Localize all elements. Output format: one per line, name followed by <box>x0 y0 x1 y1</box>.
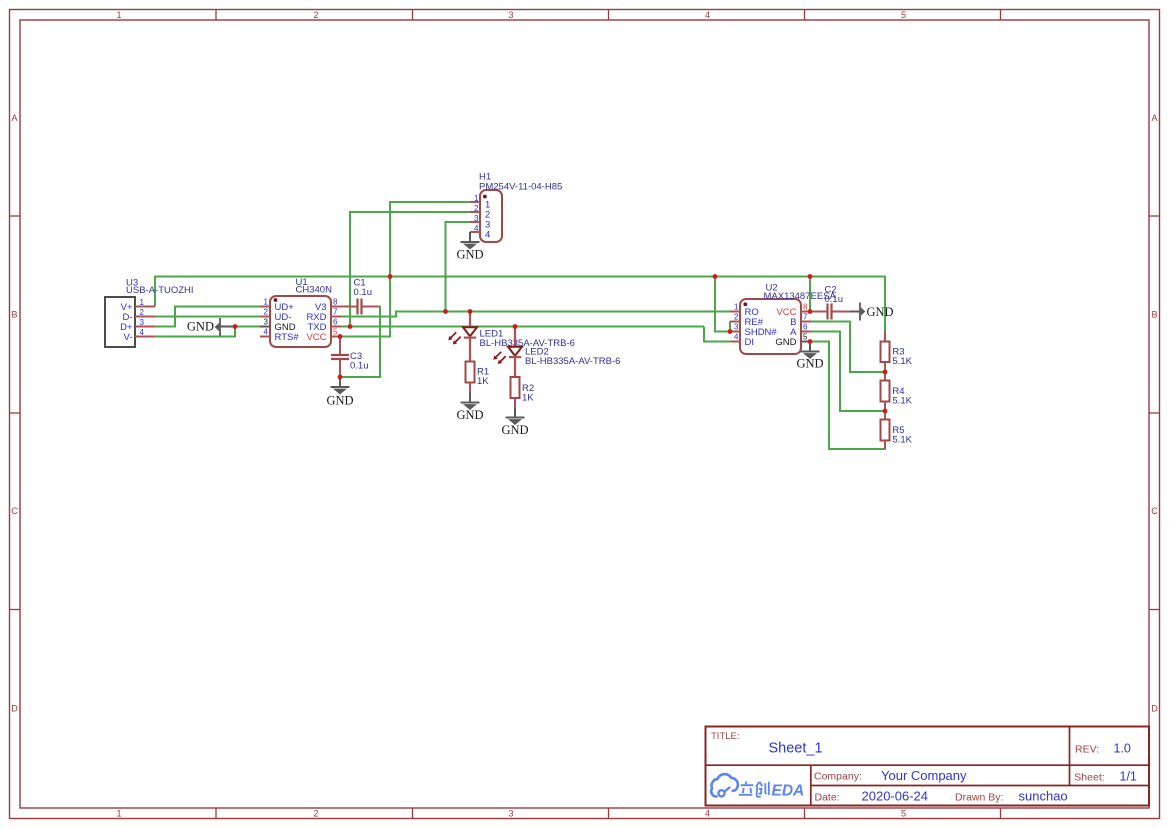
svg-text:A: A <box>1151 113 1157 123</box>
svg-text:4: 4 <box>474 224 479 233</box>
junction U2 pin5 GND <box>808 339 813 344</box>
svg-text:6: 6 <box>803 323 808 332</box>
junction VCC rail / H1 riser <box>388 274 393 279</box>
svg-text:CH340N: CH340N <box>296 285 333 296</box>
svg-text:REV:: REV: <box>1075 744 1099 756</box>
svg-text:0.1u: 0.1u <box>350 360 369 371</box>
LED2 light emission arrows <box>493 352 505 364</box>
junction R3/R4 node B <box>883 370 888 375</box>
ground symbol GND below H1 pin4 <box>456 232 483 262</box>
R5 top lead <box>884 411 886 420</box>
wire GND net R5 bottom return to U2 pin5 <box>811 342 885 450</box>
ground symbol GND right of C2 <box>850 303 894 321</box>
junction GND near USB <box>233 324 238 329</box>
svg-text:5.1K: 5.1K <box>892 434 912 445</box>
wire B net U2 pin7 to R3/R4 junction <box>811 322 885 373</box>
svg-text:1: 1 <box>264 298 269 307</box>
svg-text:3: 3 <box>508 10 513 20</box>
svg-text:0.1u: 0.1u <box>354 287 373 298</box>
wire UD- net USB D- to U1 pin2 <box>155 316 260 318</box>
svg-text:B: B <box>11 310 17 320</box>
svg-text:1: 1 <box>734 303 739 312</box>
wire VCC net rail to U2 pin8 <box>809 277 811 312</box>
svg-text:4: 4 <box>485 230 490 241</box>
svg-text:3: 3 <box>264 318 269 327</box>
svg-text:6: 6 <box>333 318 338 327</box>
svg-text:GND: GND <box>867 305 894 319</box>
svg-text:1: 1 <box>116 10 121 20</box>
wire RXD net branch to H1 pin3 <box>446 222 471 312</box>
svg-text:2: 2 <box>140 308 145 317</box>
svg-text:GND: GND <box>456 248 483 262</box>
wire A net U2 pin6 to R4/R5 junction <box>811 332 885 412</box>
svg-text:1: 1 <box>474 194 479 203</box>
logo text 立创EDA <box>739 782 804 800</box>
svg-text:Sheet_1: Sheet_1 <box>769 741 823 757</box>
svg-text:1.0: 1.0 <box>1114 742 1131 756</box>
capacitor C3 <box>331 337 349 378</box>
wire TXD net jog down to U2 DI <box>704 327 730 342</box>
junction TXD / LED2 <box>513 324 518 329</box>
U1 pin-1 marker dot <box>274 298 278 302</box>
svg-text:3: 3 <box>474 214 479 223</box>
svg-text:C: C <box>1151 506 1158 516</box>
svg-text:BL-HB335A-AV-TRB-6: BL-HB335A-AV-TRB-6 <box>525 356 620 367</box>
svg-text:1/1: 1/1 <box>1120 770 1137 784</box>
svg-text:5: 5 <box>901 10 906 20</box>
junction VCC rail / U2 pin8 riser <box>808 274 813 279</box>
H1 pin-1 marker dot <box>483 195 487 199</box>
logo cloud icon <box>711 774 738 796</box>
wire VCC rail <box>154 276 885 278</box>
LED LED1 <box>463 312 477 362</box>
U2 pin names <box>745 307 798 348</box>
svg-text:2: 2 <box>474 204 479 213</box>
svg-text:A: A <box>11 113 17 123</box>
wire RXD net U1 pin7 with jog <box>341 312 730 317</box>
connector H1 body <box>480 190 502 242</box>
svg-text:D: D <box>11 704 18 714</box>
wire UD+ net USB D+ to U1 pin1 <box>155 307 260 327</box>
wire VCC net USB V+ riser <box>154 277 156 307</box>
svg-text:GND: GND <box>796 356 823 370</box>
svg-text:3: 3 <box>734 323 739 332</box>
svg-text:VCC: VCC <box>306 332 326 343</box>
svg-text:GND: GND <box>456 408 483 422</box>
wire TXD net U1 pin6 eastward <box>341 326 704 328</box>
wire GND net junction to U1 pin3 <box>235 326 260 328</box>
svg-text:TITLE:: TITLE: <box>711 731 740 742</box>
svg-text:Your Company: Your Company <box>881 768 967 783</box>
U2 pin-1 marker dot <box>743 302 747 306</box>
ruler numbers top 1-5 <box>116 10 906 20</box>
junction RXD / H1 pin3 <box>443 309 448 314</box>
ruler ticks top <box>216 10 1001 21</box>
op-amp U1 body CH340N <box>270 296 331 347</box>
svg-text:D: D <box>1151 704 1158 714</box>
wire GND net C1 right plate return to C3 <box>341 307 380 378</box>
svg-text:Sheet:: Sheet: <box>1074 772 1104 784</box>
wire VCC net U1 pin5 to H1 pin1 <box>340 202 470 337</box>
connector U3 pin numbers <box>140 298 145 337</box>
resistor R3 <box>881 342 890 363</box>
svg-text:sunchao: sunchao <box>1019 789 1068 804</box>
svg-text:1: 1 <box>116 809 121 819</box>
U2 pin numbers <box>734 303 808 342</box>
svg-text:1K: 1K <box>522 393 534 404</box>
svg-text:8: 8 <box>333 298 338 307</box>
ground symbol GND below R2 <box>501 408 528 437</box>
ruler letters right A-D <box>1151 113 1158 714</box>
svg-text:GND: GND <box>775 337 796 348</box>
svg-text:3: 3 <box>508 809 513 819</box>
ground symbol GND below U2 pin5 <box>796 342 823 371</box>
U1 pins <box>260 307 341 337</box>
svg-text:4: 4 <box>140 328 145 337</box>
junction VCC rail / U2 SHDN riser <box>713 274 718 279</box>
junction C3 bottom GND <box>338 375 343 380</box>
R4 top lead <box>884 372 886 381</box>
svg-text:5.1K: 5.1K <box>892 395 912 406</box>
ground symbol GND near USB <box>187 318 236 336</box>
junction TXD / H1 pin2 <box>348 324 353 329</box>
wire VCC net rail to U2 SHDN# <box>715 277 730 332</box>
svg-text:5.1K: 5.1K <box>892 356 912 367</box>
title block grid <box>706 727 1150 806</box>
svg-text:GND: GND <box>501 423 528 437</box>
LED1 light emission arrows <box>448 332 460 344</box>
R2 bottom lead <box>514 398 516 408</box>
svg-text:5: 5 <box>333 328 338 337</box>
resistor R5 <box>881 420 890 441</box>
junction R4/R5 node A <box>883 409 888 414</box>
svg-text:1: 1 <box>140 298 145 307</box>
R4 bottom lead <box>884 402 886 412</box>
junction U1 pin5 VCC / C3 <box>338 334 343 339</box>
svg-text:4: 4 <box>264 328 269 337</box>
svg-text:Drawn By:: Drawn By: <box>955 792 1003 804</box>
ruler letters left A-D <box>11 113 18 714</box>
junction U2 RE#/SHDN# <box>728 329 733 334</box>
LED LED2 <box>508 327 522 378</box>
svg-text:Date:: Date: <box>815 792 840 804</box>
svg-text:8: 8 <box>803 303 808 312</box>
capacitor C1 <box>341 299 381 315</box>
svg-text:5: 5 <box>803 333 808 342</box>
ground symbol GND below C3 <box>326 377 353 408</box>
ruler ticks bottom <box>216 808 1001 819</box>
resistor R2 <box>511 377 520 398</box>
IC U2 body MAX13487EESA <box>740 299 801 354</box>
resistor R1 <box>466 362 475 383</box>
svg-text:1K: 1K <box>477 376 489 387</box>
svg-text:2: 2 <box>734 313 739 322</box>
connector U3 pins 1-4 <box>135 307 155 337</box>
junction RXD / LED1 <box>468 309 473 314</box>
svg-text:4: 4 <box>705 10 710 20</box>
svg-text:2: 2 <box>313 10 318 20</box>
capacitor C2 <box>811 304 850 320</box>
svg-text:2: 2 <box>264 308 269 317</box>
ruler ticks sides <box>10 216 1160 610</box>
resistor R4 <box>881 381 890 402</box>
svg-text:7: 7 <box>803 313 808 322</box>
svg-text:2020-06-24: 2020-06-24 <box>862 789 929 804</box>
R3 top lead <box>884 331 886 342</box>
svg-text:DI: DI <box>745 337 755 348</box>
junction U2 pin8 VCC <box>808 309 813 314</box>
H1 pin numbers internal <box>485 200 490 241</box>
svg-text:3: 3 <box>140 318 145 327</box>
wire U2 RE# tie to SHDN# <box>729 322 731 333</box>
svg-text:2: 2 <box>313 809 318 819</box>
U2 pins <box>730 312 811 342</box>
ground symbol GND below R1 <box>456 393 483 422</box>
svg-text:USB-A-TUOZHI: USB-A-TUOZHI <box>126 285 194 296</box>
connector U3 body <box>105 297 135 347</box>
connector U3 pin names <box>120 302 133 343</box>
svg-text:4: 4 <box>734 333 739 342</box>
svg-text:B: B <box>1151 310 1157 320</box>
ruler numbers bottom 1-5 <box>116 809 906 819</box>
U1 pin names <box>275 302 327 343</box>
svg-text:EDA: EDA <box>772 783 805 800</box>
svg-text:4: 4 <box>705 809 710 819</box>
svg-text:C: C <box>11 506 18 516</box>
H1 pins <box>470 202 480 232</box>
R5 bottom lead <box>884 441 886 450</box>
U1 pin numbers <box>264 298 338 337</box>
wire TXD net branch to H1 pin2 <box>350 212 470 327</box>
svg-text:V-: V- <box>124 332 133 343</box>
svg-text:7: 7 <box>333 308 338 317</box>
svg-text:PM254V-11-04-H85: PM254V-11-04-H85 <box>479 181 562 192</box>
svg-text:0.1u: 0.1u <box>825 294 844 305</box>
svg-text:GND: GND <box>187 320 214 334</box>
svg-text:5: 5 <box>901 809 906 819</box>
svg-text:Company:: Company: <box>814 771 862 783</box>
svg-text:GND: GND <box>326 394 353 408</box>
svg-text:RTS#: RTS# <box>275 332 300 343</box>
R1 bottom lead <box>469 383 471 393</box>
R3 bottom lead <box>884 362 886 372</box>
H1 pin numbers external <box>474 194 479 233</box>
wire GND net USB V- to junction <box>155 327 235 337</box>
wire VCC rail drop to R3 <box>884 276 886 333</box>
